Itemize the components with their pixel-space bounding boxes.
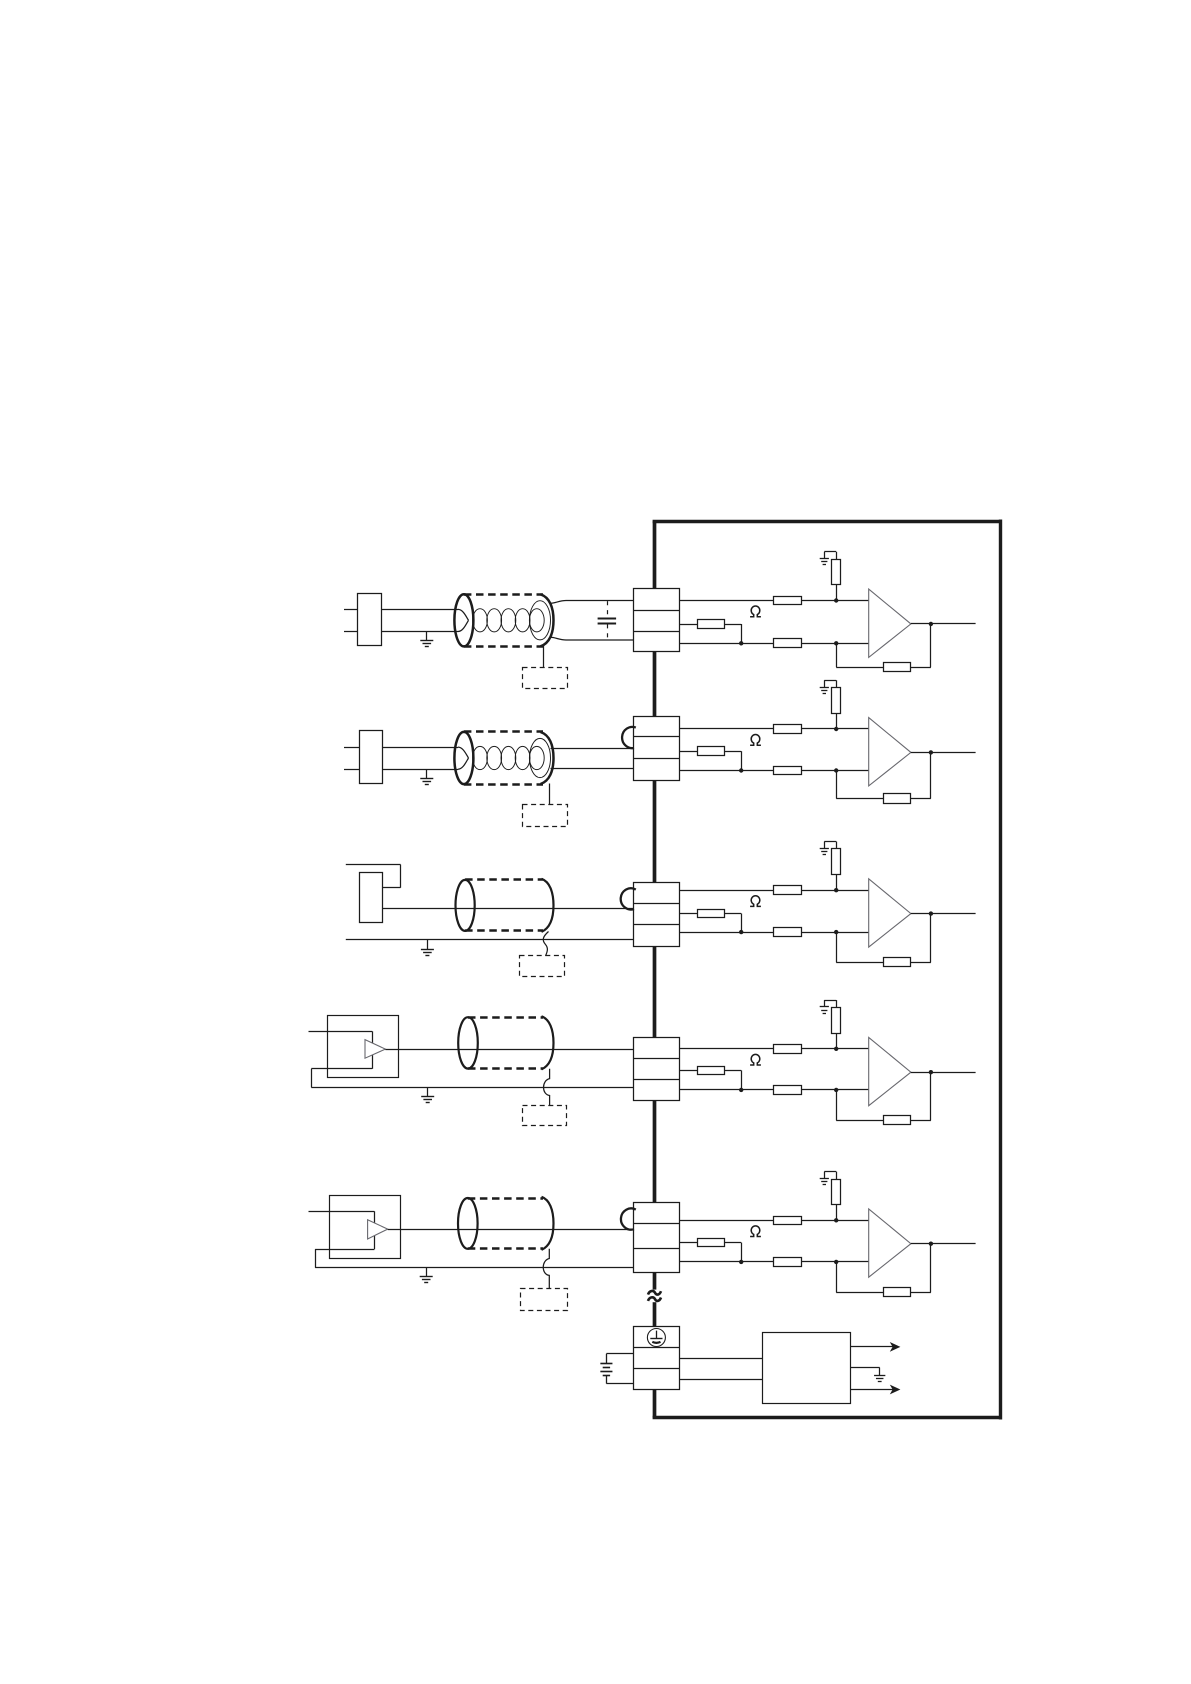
wire ch1 feedback to output <box>911 624 931 668</box>
wire ch3 common return <box>346 939 634 941</box>
jumper loop ch3 V+ to I+ terminal <box>621 888 636 909</box>
label ch4 ohm value <box>750 1054 761 1065</box>
node ch1 inverting junction <box>834 641 838 645</box>
FG reference box ch3 (dashed) <box>520 956 565 977</box>
protective earth symbol in FG terminal <box>647 1329 665 1347</box>
wire ch1 middle terminal lead <box>679 624 698 626</box>
resistor ch2 input filter R2a <box>774 725 802 734</box>
transmitter TX3 ch3 body <box>346 865 401 923</box>
shield cable ch4 right end arc <box>542 1016 554 1069</box>
ground ch2 source ground <box>420 769 433 784</box>
wire ch4 feedback to output <box>911 1072 931 1120</box>
wire ch2 source plus lead <box>382 747 458 749</box>
wire ch4 signal lead <box>385 1049 633 1051</box>
resistor ch1 input filter R1b <box>774 639 802 648</box>
resistor ch3 input filter R3a <box>774 886 802 895</box>
shield cable ch4 left end ellipse <box>458 1017 478 1068</box>
wire ch1 inverting input <box>679 643 869 645</box>
wire ch1 cable exit to terminals <box>550 601 634 641</box>
wire ch1 source minus lead <box>382 631 458 633</box>
wire converter output minus with arrow <box>851 1385 901 1395</box>
wire ch5 preamp input line <box>309 1211 375 1213</box>
wire ch2 feedback lower run <box>836 771 883 799</box>
ground ch3 internal analog ground <box>820 849 829 855</box>
wire ch3 inverting input <box>679 932 869 934</box>
terminal block TB-PWR power/FG block <box>633 1327 679 1390</box>
node ch5 output/feedback junction <box>929 1242 933 1246</box>
wire ch1 shield drain to FG <box>543 646 545 668</box>
wire ch3 feedback lower run <box>836 932 883 962</box>
FG reference box ch1 (dashed) <box>523 668 568 689</box>
wire ch2 shield drain to FG <box>549 784 551 805</box>
resistor ch2 feedback R2f <box>884 794 911 804</box>
ground ch2 internal analog ground <box>820 688 829 694</box>
node ch2 output/feedback junction <box>929 750 933 754</box>
wire ch4 shunt to COM junction <box>724 1070 741 1090</box>
wire ch2 feedback to output <box>911 752 931 798</box>
op-amp U4 ch4 differential amplifier <box>869 1037 911 1105</box>
resistor ch4 range R4m (250 ohm shunt) <box>698 1067 725 1075</box>
resistor ch5 feedback R5f <box>884 1288 911 1297</box>
resistor ch5 bias-to-ground R5v <box>832 1180 841 1221</box>
op-amp U5 ch5 differential amplifier <box>869 1209 911 1277</box>
shield cable ch5 dashed sheath <box>468 1199 543 1249</box>
node ch2 shunt/COM junction <box>739 768 743 772</box>
resistor ch3 feedback R3f <box>884 958 911 967</box>
wire ch4 common return <box>311 1087 633 1089</box>
signal source V2 ch2 (voltage/current source) <box>360 731 383 784</box>
ground ch4 internal analog ground <box>820 1007 829 1014</box>
wire ch2 source left stubs <box>344 748 359 770</box>
wire ch4 preamp return <box>311 1069 372 1088</box>
resistor ch4 input filter R4a <box>774 1045 802 1054</box>
ground ch5 source ground <box>420 1268 433 1283</box>
wire ch3 shunt to COM junction <box>724 914 741 933</box>
wire ch5 preamp internal vertical <box>374 1211 376 1249</box>
node ch4 inverting junction <box>834 1088 838 1092</box>
node ch4 non-inverting junction <box>834 1047 838 1051</box>
shield cable ch5 left end ellipse <box>458 1198 478 1249</box>
op-amp U1 ch1 differential amplifier <box>869 589 911 657</box>
wire ch1 op-amp output <box>911 623 976 625</box>
wire ch1 source left stubs <box>344 610 357 632</box>
wire ch4 non-inverting input <box>679 1048 869 1050</box>
wire ch2 source minus lead <box>382 769 458 771</box>
terminal block TB1 (V+/I+/COM) ch1 <box>634 589 680 652</box>
wire module left rail (thick) <box>653 521 657 1417</box>
break symbol on module left rail <box>648 1291 661 1301</box>
preamp source box ch4 <box>328 1016 399 1078</box>
wire ch1 capacitor dashed connections <box>607 601 609 639</box>
ground ch4 source ground <box>421 1087 434 1102</box>
shield cable ch1 dashed sheath <box>464 595 543 647</box>
resistor ch4 feedback R4f <box>884 1116 911 1125</box>
wire ch2 op-amp output <box>911 752 976 754</box>
battery B1 external 24VDC supply <box>600 1354 633 1384</box>
wire ch5 middle terminal lead <box>679 1242 698 1244</box>
wire ch5 signal lead <box>388 1229 634 1231</box>
signal source V1 ch1 (voltage/current source) <box>358 594 382 646</box>
label ch5 ohm value <box>750 1226 761 1237</box>
node ch5 inverting junction <box>834 1260 838 1264</box>
resistor ch2 input filter R2b <box>774 767 802 775</box>
shield cable ch2 right end arc <box>541 732 554 784</box>
op-amp U2 ch2 differential amplifier <box>869 718 911 786</box>
wire ch2 cable exit to terminals <box>551 749 634 769</box>
wire ch1 shunt to COM junction <box>724 624 741 643</box>
shield cable ch3 left end ellipse <box>456 880 475 931</box>
wire ch4 op-amp output <box>911 1072 976 1074</box>
wire ch1 bias resistor to ground hook <box>824 552 836 560</box>
amplifier A5 ch5 triangle <box>368 1220 388 1239</box>
wire ch5 preamp return <box>315 1249 374 1268</box>
wire power block to converter minus <box>680 1379 763 1381</box>
node ch4 output/feedback junction <box>929 1070 933 1074</box>
label ch2 ohm value <box>750 735 761 746</box>
module enclosure border (analog input module) <box>653 520 1002 1420</box>
wire ch1 non-inverting input <box>679 600 869 602</box>
wire ch4 middle terminal lead <box>679 1070 698 1072</box>
wire ch1 feedback lower run <box>836 643 883 667</box>
jumper loop ch5 V+ to I+ terminal <box>621 1208 636 1229</box>
node ch3 non-inverting junction <box>834 888 838 892</box>
shield cable ch5 right end arc <box>542 1197 554 1250</box>
ground ch3 source ground <box>421 940 434 956</box>
wire ch3 shield drain squiggle to FG <box>543 932 548 956</box>
FG reference box ch4 (dashed) <box>523 1106 567 1126</box>
twisted pair ch1 coil loops <box>458 601 551 640</box>
node ch2 non-inverting junction <box>834 727 838 731</box>
wire ch5 bias resistor to ground hook <box>824 1172 836 1180</box>
resistor ch1 input filter R1a <box>774 597 802 605</box>
wire ch5 feedback lower run <box>836 1262 883 1293</box>
resistor ch3 input filter R3b <box>774 928 802 937</box>
FG reference box ch5 (dashed) <box>521 1289 568 1311</box>
wire ch3 op-amp output <box>911 913 976 915</box>
wire ch4 bias resistor to ground hook <box>824 1000 836 1008</box>
op-amp U3 ch3 differential amplifier <box>869 879 911 947</box>
shield cable ch3 dashed sheath <box>465 880 543 931</box>
wire ch4 shield drain squiggle to FG <box>544 1069 550 1106</box>
resistor ch1 range R1m (250 ohm shunt) <box>698 620 725 629</box>
wire ch5 inverting input <box>679 1261 869 1263</box>
resistor ch1 bias-to-ground R1v <box>832 560 841 601</box>
wire ch3 feedback to output <box>911 914 931 963</box>
resistor ch2 range R2m (250 ohm shunt) <box>698 747 725 756</box>
ground ch1 source ground <box>420 632 433 647</box>
amplifier A4 ch4 triangle <box>365 1040 385 1059</box>
terminal block TB4 (V+/I+/COM) ch4 <box>634 1038 680 1101</box>
shield cable ch1 right end arc <box>541 594 554 646</box>
resistor ch1 feedback R1f <box>884 663 911 672</box>
resistor ch5 input filter R5a <box>774 1217 802 1225</box>
shield cable ch1 left end ellipse <box>454 594 473 646</box>
wire ch2 middle terminal lead <box>679 751 698 753</box>
wire ch5 shunt to COM junction <box>724 1243 741 1262</box>
wire ch2 inverting input <box>679 770 869 772</box>
wire ch3 middle terminal lead <box>679 913 698 915</box>
node ch1 non-inverting junction <box>834 598 838 602</box>
node ch3 output/feedback junction <box>929 911 933 915</box>
wire ch3 non-inverting input <box>679 890 869 892</box>
resistor ch5 input filter R5b <box>774 1258 802 1267</box>
resistor ch4 input filter R4b <box>774 1086 802 1095</box>
terminal block TB2 (V+/I+/COM) ch2 <box>634 717 680 781</box>
wire ch2 bias resistor to ground hook <box>824 680 836 688</box>
wire ch4 feedback lower run <box>836 1090 883 1121</box>
wire converter output plus with arrow <box>851 1342 901 1352</box>
resistor ch2 bias-to-ground R2v <box>832 688 841 730</box>
node ch5 shunt/COM junction <box>739 1260 743 1264</box>
ground ch1 internal analog ground <box>820 559 829 565</box>
jumper loop ch2 V+ to I+ terminal <box>622 727 636 748</box>
wire ch5 feedback to output <box>911 1244 931 1293</box>
capacitor C1 ch1 filter plates <box>598 619 617 624</box>
wire ch4 preamp internal vertical <box>372 1031 374 1069</box>
wire ch5 op-amp output <box>911 1243 976 1245</box>
node ch3 inverting junction <box>834 930 838 934</box>
node ch5 non-inverting junction <box>834 1218 838 1222</box>
wire ch1 source plus lead <box>382 609 458 611</box>
wire power block to converter plus <box>680 1358 763 1360</box>
resistor ch4 bias-to-ground R4v <box>832 1008 841 1049</box>
shield cable ch2 dashed sheath <box>464 732 543 785</box>
FG reference box ch2 (dashed) <box>523 805 568 827</box>
shield cable ch2 left end ellipse <box>454 732 473 784</box>
label ch1 ohm value <box>750 606 761 617</box>
shield cable ch4 dashed sheath <box>468 1018 543 1069</box>
resistor ch3 range R3m (250 ohm shunt) <box>698 910 725 918</box>
ground ch5 internal analog ground <box>820 1179 829 1185</box>
label ch3 ohm value <box>750 896 761 907</box>
wire ch2 non-inverting input <box>679 728 869 730</box>
wire ch5 common return <box>315 1267 633 1269</box>
DC/DC converter U-PWR box <box>763 1333 851 1404</box>
resistor ch5 range R5m (250 ohm shunt) <box>698 1239 725 1247</box>
wire ch3 signal lead <box>382 908 633 910</box>
wire ch5 shield drain squiggle to FG <box>543 1249 549 1288</box>
wire ch3 bias resistor to ground hook <box>824 842 836 850</box>
node ch3 shunt/COM junction <box>739 930 743 934</box>
shield cable ch3 right end arc <box>542 879 554 932</box>
node ch2 inverting junction <box>834 768 838 772</box>
terminal block TB3 (V+/I+/COM) ch3 <box>634 883 680 947</box>
node ch4 shunt/COM junction <box>739 1088 743 1092</box>
wire ch4 inverting input <box>679 1089 869 1091</box>
wire ch5 non-inverting input <box>679 1220 869 1222</box>
wire ch2 shunt to COM junction <box>724 751 741 770</box>
node ch1 shunt/COM junction <box>739 641 743 645</box>
twisted pair ch2 coil loops <box>458 738 551 777</box>
wire converter mid tap to ground <box>851 1368 880 1376</box>
preamp source box ch5 <box>330 1196 401 1259</box>
resistor ch3 bias-to-ground R3v <box>832 849 841 891</box>
node ch1 output/feedback junction <box>929 622 933 626</box>
wire ch4 preamp input line <box>309 1031 373 1033</box>
terminal block TB5 (V+/I+/COM) ch5 <box>634 1203 680 1273</box>
ground converter output common <box>874 1376 885 1382</box>
